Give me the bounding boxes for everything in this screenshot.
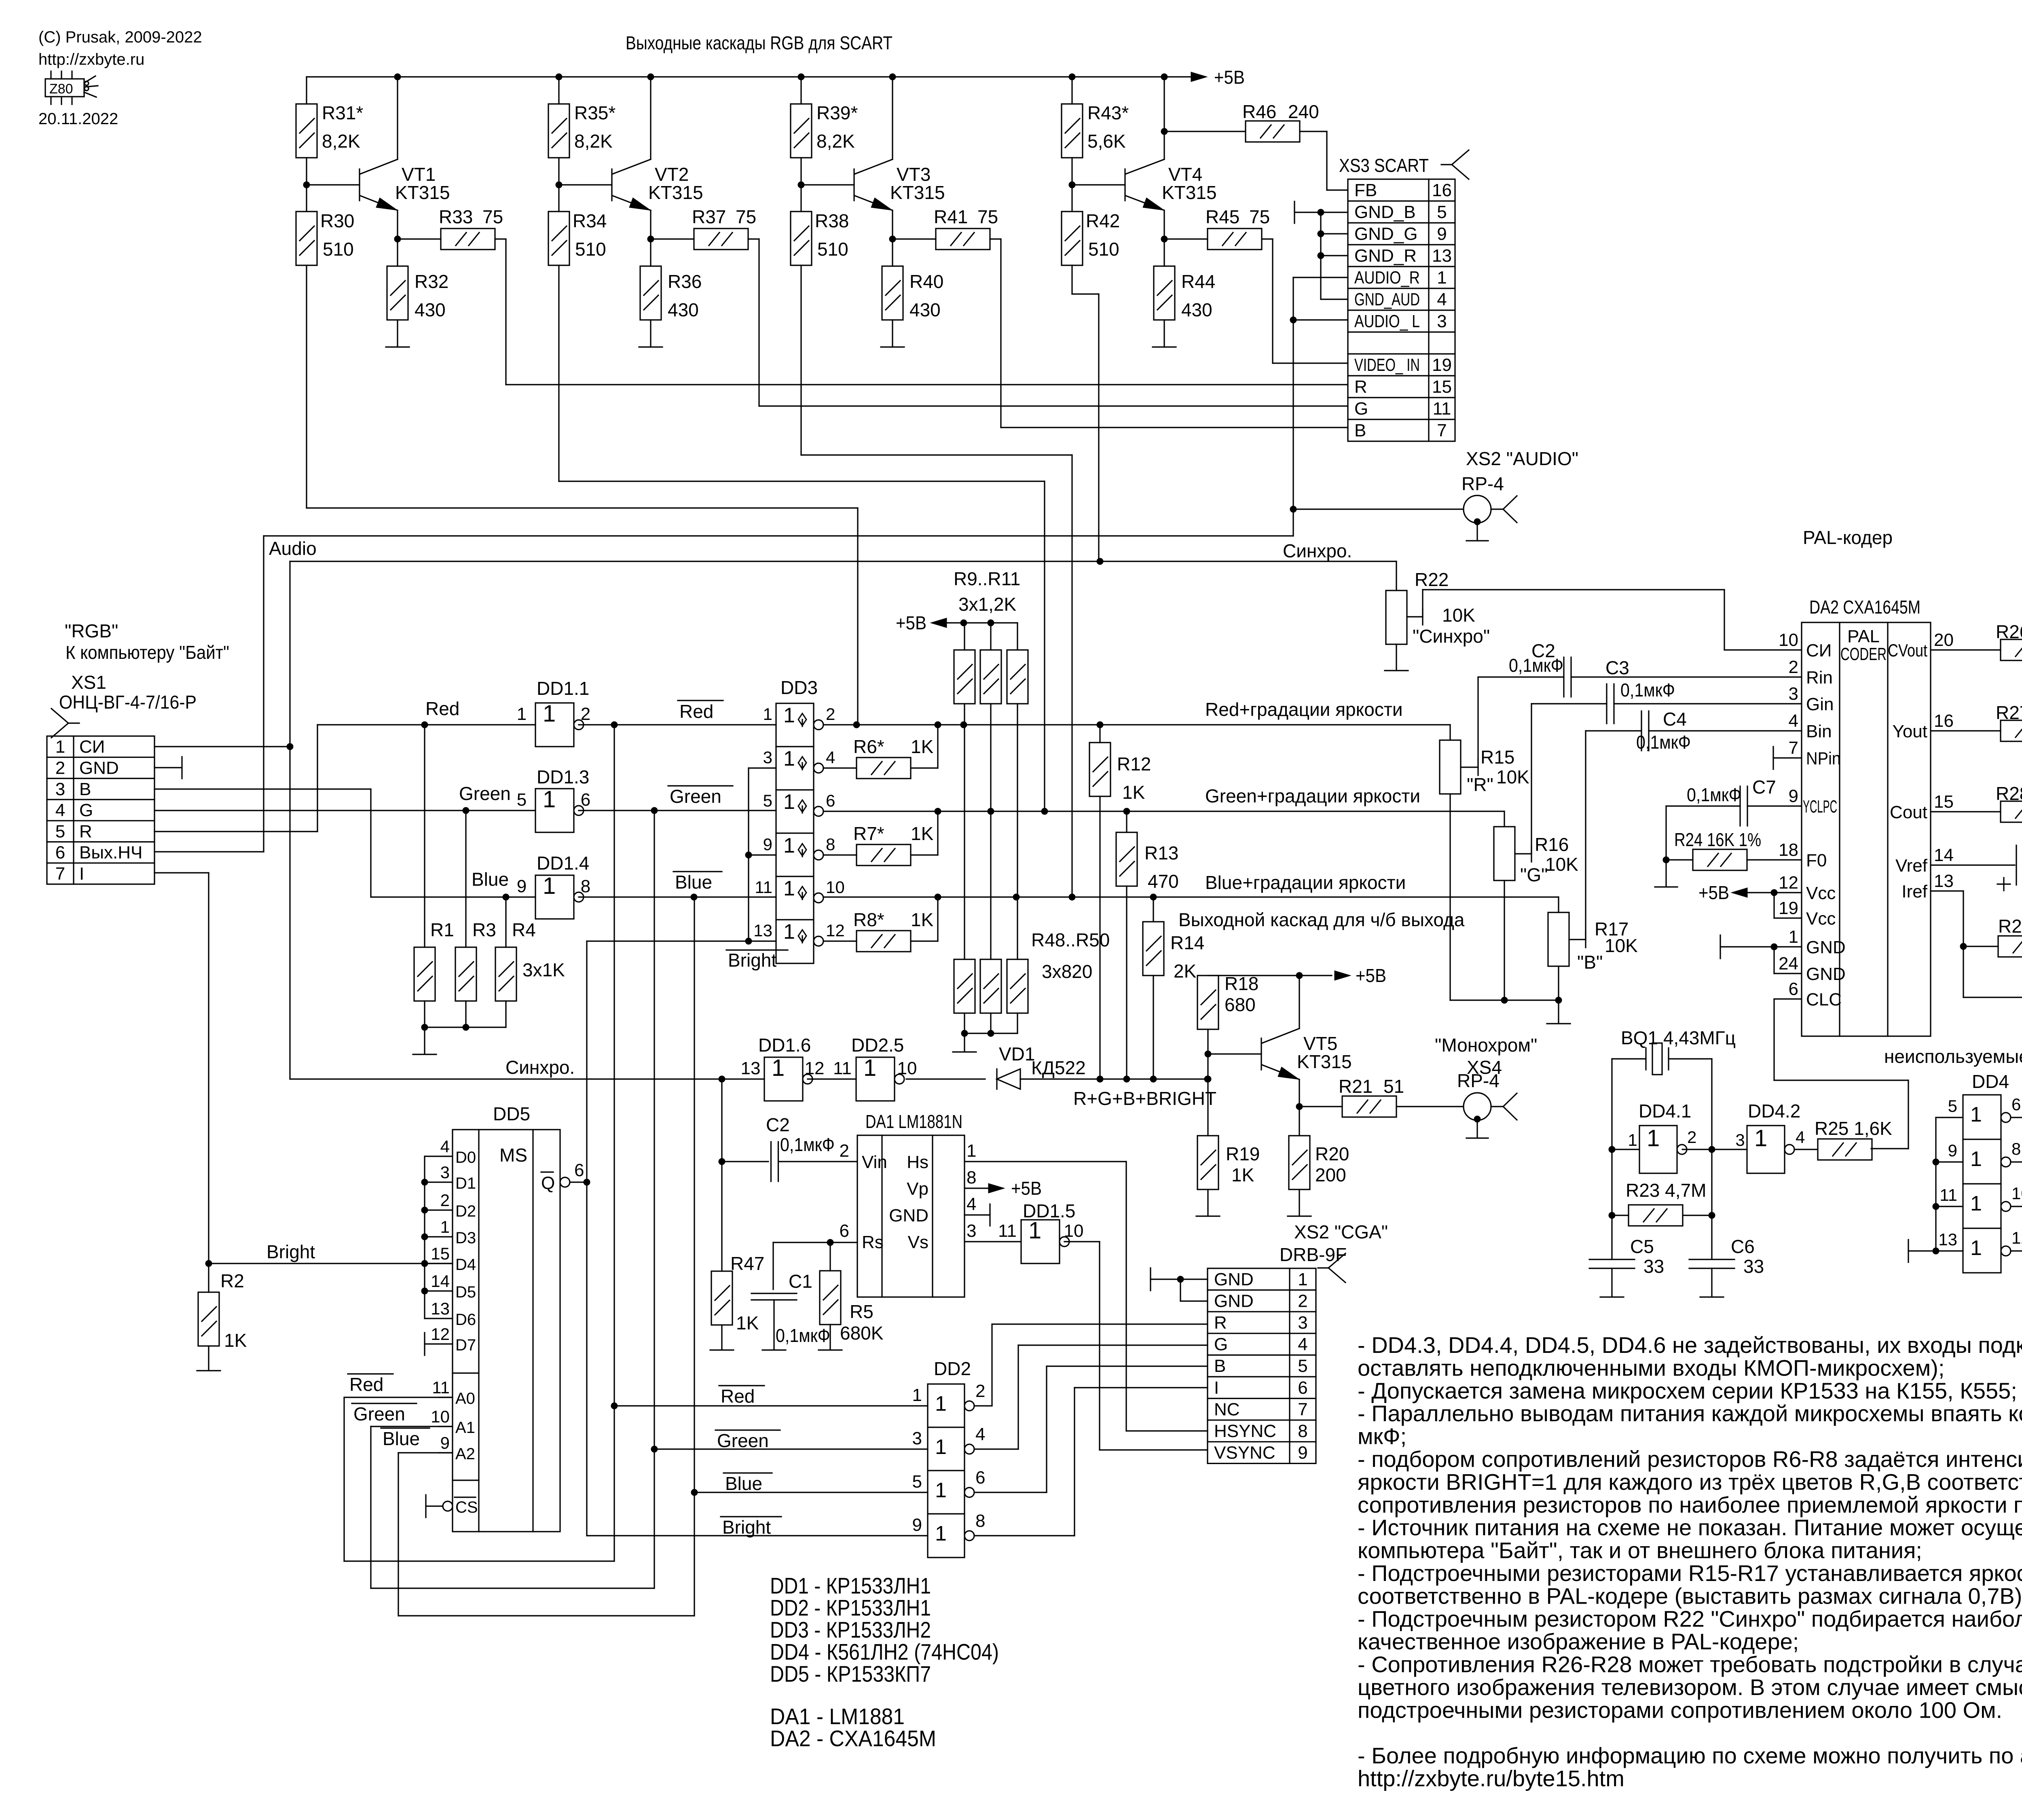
svg-text:7: 7 [55, 864, 65, 884]
svg-text:Blue+градации яркости: Blue+градации яркости [1205, 872, 1406, 893]
svg-text:R4: R4 [512, 919, 536, 940]
svg-text:GND: GND [79, 758, 119, 778]
svg-text:Green: Green [670, 786, 721, 807]
wire collector VT4 [1163, 77, 1165, 159]
svg-text:DA1 LM1881N: DA1 LM1881N [865, 1111, 962, 1132]
svg-text:6: 6 [1298, 1378, 1307, 1398]
svg-text:19: 19 [1779, 898, 1798, 918]
svg-text:200: 200 [1315, 1164, 1346, 1185]
wire +5V at VT5 [1299, 975, 1332, 976]
svg-text:R35*: R35* [574, 102, 615, 123]
svg-text:A1: A1 [455, 1419, 475, 1437]
resistor R31* [296, 104, 317, 158]
svg-text:R20: R20 [1315, 1143, 1349, 1164]
connector XS2 CGA table [1208, 1268, 1316, 1463]
svg-text:R22: R22 [1415, 569, 1449, 590]
svg-text:B: B [1214, 1356, 1226, 1376]
wire sync to DD1.6 [290, 1078, 764, 1079]
svg-text:оставлять неподключенными вход: оставлять неподключенными входы КМОП-мик… [1358, 1355, 1945, 1380]
svg-text:GND_G: GND_G [1354, 224, 1417, 244]
wire emitter resistor to ground R32 [397, 320, 398, 347]
svg-text:Green: Green [353, 1403, 405, 1424]
ground R5 [829, 1325, 831, 1349]
svg-text:9: 9 [1789, 786, 1798, 806]
svg-text:GND_AUD: GND_AUD [1354, 290, 1420, 309]
svg-text:9: 9 [912, 1515, 922, 1535]
svg-text:MS: MS [499, 1145, 527, 1166]
svg-text:G: G [79, 800, 93, 820]
svg-text:NC: NC [1214, 1399, 1240, 1419]
svg-text:10K: 10K [1545, 854, 1578, 875]
svg-text:2: 2 [55, 758, 65, 778]
resistor R49 [990, 811, 991, 959]
svg-text:1K: 1K [1122, 782, 1145, 803]
svg-text:XS3 SCART: XS3 SCART [1339, 155, 1429, 176]
wire nBlue to DD2.3 [691, 1489, 698, 1496]
svg-text:3x1K: 3x1K [522, 959, 565, 980]
svg-text:R29: R29 [1998, 916, 2022, 937]
svg-text:2: 2 [840, 1141, 849, 1161]
svg-text:1: 1 [935, 1522, 947, 1545]
svg-text:цветного изображения телевизор: цветного изображения телевизором. В этом… [1358, 1674, 2022, 1700]
svg-text:470: 470 [1148, 871, 1179, 892]
svg-text:"R": "R" [1467, 774, 1493, 795]
svg-text:C5: C5 [1630, 1236, 1654, 1257]
ground R1 R3 R4 [424, 1027, 425, 1054]
svg-text:R+G+B+BRIGHT: R+G+B+BRIGHT [1073, 1088, 1216, 1109]
svg-text:75: 75 [482, 206, 503, 227]
wire DD2.1 out to CGA R [974, 1405, 992, 1406]
wire audio to AUDIO_R [1293, 277, 1348, 278]
capacitor C8 [1931, 864, 2015, 866]
svg-text:0,1мкФ: 0,1мкФ [1509, 655, 1563, 676]
resistor R2 [208, 1263, 209, 1292]
svg-text:R47: R47 [730, 1253, 764, 1274]
svg-text:сопротивления резисторов по на: сопротивления резисторов по наиболее при… [1358, 1492, 2022, 1517]
svg-text:R19: R19 [1226, 1143, 1260, 1164]
svg-text:GND_R: GND_R [1354, 246, 1417, 266]
svg-text:R8*: R8* [853, 909, 884, 930]
svg-text:1: 1 [1437, 268, 1447, 288]
wire emitter VT1 [397, 210, 398, 266]
svg-text:4: 4 [1796, 1128, 1805, 1147]
wire Green line to R16 [1504, 811, 1505, 827]
junction on +5V rail [1069, 74, 1075, 80]
svg-text:NPin: NPin [1806, 749, 1841, 768]
svg-text:R34: R34 [573, 210, 607, 231]
wire GND pins DA2 [1774, 946, 1802, 947]
resistor R20 [1289, 1136, 1310, 1189]
svg-text:8,2K: 8,2K [816, 131, 855, 152]
svg-text:RP-4: RP-4 [1457, 1070, 1500, 1091]
svg-text:DD2.5: DD2.5 [851, 1035, 904, 1056]
wire +5V rail [307, 76, 1192, 77]
wire DD2.2 out to CGA G [974, 1448, 1018, 1450]
ground stub DD4 inputs [1908, 1250, 1936, 1251]
svg-text:18: 18 [1779, 840, 1798, 860]
svg-text:R24 16K 1%: R24 16K 1% [1674, 829, 1761, 850]
transistor VT4 KT315 [1124, 169, 1125, 201]
svg-text:20.11.2022: 20.11.2022 [38, 110, 118, 128]
svg-text:1K: 1K [736, 1312, 759, 1333]
resistor R5 [829, 1242, 831, 1271]
svg-text:510: 510 [1088, 239, 1119, 260]
wire Audio line [264, 535, 1293, 536]
svg-text:R26*: R26* [1996, 621, 2022, 642]
svg-text:6: 6 [826, 791, 835, 810]
wire R37 output to SCART G [748, 238, 759, 239]
svg-text:D3: D3 [455, 1229, 476, 1247]
svg-text:Gin: Gin [1806, 694, 1834, 714]
svg-text:9: 9 [1437, 224, 1447, 244]
svg-text:D7: D7 [455, 1336, 476, 1354]
svg-text:+5В: +5В [1698, 882, 1729, 903]
svg-text:GND: GND [889, 1206, 929, 1225]
wire DD2.4 out to CGA I [974, 1535, 1074, 1536]
resistor R47 [711, 1271, 732, 1325]
wire collector chain VT4 [1071, 77, 1072, 104]
resistor R12 [1099, 725, 1100, 743]
resistor R9 [964, 623, 965, 650]
svg-text:C3: C3 [1605, 657, 1629, 678]
svg-text:1: 1 [783, 704, 795, 727]
svg-text:DA2 - CXA1645M: DA2 - CXA1645M [770, 1726, 936, 1751]
svg-text:PAL-кодер: PAL-кодер [1803, 527, 1893, 548]
svg-text:соответственно в PAL-кодере (в: соответственно в PAL-кодере (выставить р… [1358, 1583, 2022, 1608]
svg-text:R6*: R6* [853, 736, 884, 757]
svg-text:"G": "G" [1520, 864, 1548, 885]
resistor R6* [823, 767, 857, 768]
svg-text:Hs: Hs [907, 1152, 929, 1172]
svg-text:A2: A2 [455, 1445, 475, 1463]
resistor R13 [1126, 811, 1127, 832]
resistor R18 [1197, 976, 1218, 1029]
svg-text:подстроечными резисторами сопр: подстроечными резисторами сопротивлением… [1358, 1697, 2002, 1723]
svg-text:10: 10 [1779, 630, 1798, 650]
svg-text:5: 5 [763, 791, 772, 810]
wire +5V line VT5 [1208, 975, 1299, 976]
wire base node VT4 [1071, 158, 1072, 212]
svg-text:12: 12 [1779, 873, 1798, 893]
svg-text:7: 7 [1298, 1399, 1307, 1419]
wire CLC to R25 [1774, 998, 1802, 999]
svg-text:G: G [1214, 1335, 1228, 1354]
junction on +5V rail [1161, 74, 1168, 80]
svg-text:430: 430 [668, 299, 699, 320]
svg-text:12: 12 [431, 1325, 450, 1344]
svg-text:75: 75 [977, 206, 998, 227]
wire C6 ground [1711, 1268, 1712, 1296]
svg-text:6: 6 [55, 843, 65, 863]
svg-text:DD1.6: DD1.6 [758, 1035, 811, 1056]
svg-text:D1: D1 [455, 1175, 476, 1192]
svg-text:XS2 "AUDIO": XS2 "AUDIO" [1466, 448, 1578, 469]
resistor R38 [791, 212, 812, 265]
svg-text:510: 510 [575, 239, 606, 260]
svg-text:11: 11 [1433, 399, 1451, 419]
wire base node VT3 [800, 158, 802, 212]
wire emitter VT3 [892, 210, 893, 266]
svg-text:- Источник питания на схеме не: - Источник питания на схеме не показан. … [1358, 1515, 2022, 1540]
svg-text:Red: Red [349, 1374, 383, 1395]
svg-text:Rs: Rs [862, 1232, 884, 1252]
svg-text:3: 3 [1789, 684, 1798, 704]
svg-text:R44: R44 [1181, 271, 1215, 292]
svg-text:5: 5 [1948, 1096, 1957, 1115]
svg-text:1: 1 [1970, 1236, 1982, 1260]
svg-text:1: 1 [935, 1435, 947, 1459]
svg-text:1: 1 [783, 877, 795, 900]
svg-text:- Параллельно выводам питания: - Параллельно выводам питания каждой мик… [1358, 1401, 2022, 1426]
svg-text:XS1: XS1 [71, 672, 106, 693]
wire R8 to Blue line [911, 940, 938, 942]
junction on +5V rail [889, 74, 896, 80]
resistor R39* [791, 104, 812, 158]
svg-text:1: 1 [1647, 1125, 1660, 1151]
svg-text:4: 4 [967, 1194, 976, 1214]
ground R40 [881, 346, 904, 347]
svg-text:Vcc: Vcc [1806, 909, 1836, 929]
svg-text:R31*: R31* [322, 102, 363, 123]
svg-text:A0: A0 [455, 1390, 475, 1407]
svg-text:"Синхро": "Синхро" [1413, 626, 1490, 647]
svg-text:Z80: Z80 [49, 81, 73, 97]
svg-text:R3: R3 [472, 919, 496, 940]
svg-text:Blue: Blue [383, 1428, 420, 1449]
junction on +5V rail [394, 74, 401, 80]
svg-text:R39*: R39* [816, 102, 858, 123]
resistor R21 [1299, 1106, 1342, 1107]
capacitor C6 [1689, 1259, 1734, 1260]
svg-text:мкФ;: мкФ; [1358, 1424, 1407, 1449]
svg-text:2: 2 [826, 705, 835, 724]
wire nRed to DD5 A0 [613, 1406, 615, 1561]
svg-text:2: 2 [1687, 1128, 1696, 1147]
svg-text:VIDEO_ IN: VIDEO_ IN [1354, 355, 1420, 375]
resistor R7* [823, 854, 857, 855]
svg-text:1K: 1K [224, 1330, 247, 1351]
pin NPin stub [1773, 757, 1802, 758]
svg-text:R15: R15 [1481, 747, 1514, 768]
svg-text:СИ: СИ [79, 737, 105, 757]
wire R20 ground [1299, 1189, 1300, 1215]
wire DD4.1 out [1682, 1149, 1712, 1150]
wire stage2 base feed to Green line [558, 265, 559, 481]
svg-text:1K: 1K [1231, 1164, 1254, 1185]
svg-text:C4: C4 [1663, 709, 1687, 730]
svg-text:YCLPC: YCLPC [1803, 797, 1837, 817]
svg-text:1: 1 [55, 737, 65, 757]
svg-text:5: 5 [55, 821, 65, 841]
resistor R19 [1197, 1136, 1218, 1189]
svg-text:R45: R45 [1206, 206, 1239, 227]
svg-text:6: 6 [840, 1221, 849, 1241]
wire stage1 base feed to Red line [306, 265, 307, 508]
svg-text:- Допускается замена микросхем: - Допускается замена микросхем серии КР1… [1358, 1378, 2017, 1403]
svg-text:Vp: Vp [907, 1179, 929, 1199]
svg-text:- Сопротивления R26-R28 может: - Сопротивления R26-R28 может требовать … [1358, 1652, 2022, 1677]
svg-text:D2: D2 [455, 1202, 476, 1220]
svg-text:1: 1 [543, 873, 556, 899]
svg-text:VSYNC: VSYNC [1214, 1443, 1275, 1463]
wire R41 output to SCART B [990, 238, 1001, 239]
svg-text:Cout: Cout [1890, 802, 1927, 822]
svg-text:- Подстроечными резисторами R1: - Подстроечными резисторами R15-R17 уста… [1358, 1560, 2022, 1586]
+5V arrowhead right [1191, 72, 1207, 82]
svg-text:F0: F0 [1806, 851, 1827, 870]
svg-text:13: 13 [431, 1299, 450, 1318]
svg-text:D5: D5 [455, 1283, 476, 1301]
svg-text:3: 3 [912, 1428, 922, 1448]
wire sync to R22 [1396, 561, 1397, 590]
wire Hs to HSYNC [964, 1161, 1126, 1162]
capacitor C9 [1963, 997, 2022, 998]
svg-text:C7: C7 [1752, 777, 1776, 798]
wire DD2.5 out to VD1 [906, 1078, 985, 1079]
wire R48..R50 common to ground [964, 1033, 1017, 1034]
svg-text:5: 5 [1437, 202, 1447, 222]
wire nBlue to DD5 A2 [694, 1492, 695, 1616]
svg-text:R33: R33 [439, 206, 473, 227]
svg-text:DD3: DD3 [780, 677, 818, 698]
wire XS1 GND stub [154, 767, 182, 768]
svg-text:I: I [79, 864, 84, 884]
wire audio to AUDIO_L [1293, 319, 1348, 320]
resistor R29 [1963, 946, 1998, 947]
svg-text:KT315: KT315 [890, 182, 945, 203]
resistor R32 [387, 266, 408, 320]
wire Red line [317, 724, 535, 725]
svg-text:12: 12 [826, 921, 845, 940]
svg-text:Rin: Rin [1806, 668, 1833, 688]
svg-text:5,6K: 5,6K [1087, 131, 1126, 152]
wire VT5 collector [1299, 976, 1300, 1029]
svg-text:Синхро.: Синхро. [505, 1057, 575, 1078]
svg-text:- подбором сопротивлений резис: - подбором сопротивлений резисторов R6-R… [1358, 1446, 2022, 1472]
svg-text:24: 24 [1779, 954, 1798, 973]
wire DD1.3 out / nGreen [579, 810, 776, 811]
svg-text:R7*: R7* [853, 823, 884, 844]
svg-text:12: 12 [805, 1058, 825, 1078]
ground XS2 CGA [1150, 1268, 1151, 1291]
wire base node VT2 [558, 158, 559, 212]
svg-text:3x1,2K: 3x1,2K [958, 594, 1017, 615]
svg-text:1: 1 [543, 700, 556, 727]
resistor R43* [1062, 104, 1083, 158]
svg-text:10: 10 [1064, 1221, 1084, 1241]
svg-text:PAL: PAL [1847, 626, 1880, 646]
resistor R8* [823, 940, 857, 942]
svg-text:GND: GND [1214, 1291, 1254, 1311]
wire nGreen to DD5 A1 [654, 1449, 655, 1588]
svg-text:Выходные каскады RGB для SCART: Выходные каскады RGB для SCART [626, 32, 893, 53]
transistor VT1 KT315 [359, 169, 360, 201]
svg-text:15: 15 [431, 1244, 450, 1263]
wire Bright from XS1 I [205, 1260, 212, 1267]
wire DD1.1 out / nRed [579, 724, 776, 725]
svg-text:КД522: КД522 [1031, 1057, 1086, 1078]
resistor R27* [1931, 730, 2001, 731]
svg-text:1: 1 [863, 1055, 876, 1081]
wire R45 output to SCART VIDEO_IN [1262, 238, 1273, 239]
svg-text:CODER: CODER [1840, 644, 1887, 664]
gate DD3 (6x open-collector) [776, 703, 814, 963]
capacitor C4 [1586, 730, 1641, 731]
svg-text:14: 14 [1934, 845, 1954, 865]
svg-text:R28*: R28* [1996, 783, 2022, 804]
resistor R1 [421, 722, 428, 728]
svg-text:1: 1 [935, 1392, 947, 1416]
wire sync line to R22 [290, 561, 1396, 562]
svg-text:6: 6 [574, 1160, 584, 1180]
svg-text:KT315: KT315 [1297, 1051, 1352, 1072]
wire emitter resistor to ground R36 [650, 320, 651, 347]
svg-text:680: 680 [1225, 994, 1256, 1015]
svg-text:2: 2 [1298, 1291, 1307, 1311]
svg-text:R14: R14 [1170, 932, 1204, 953]
svg-text:4: 4 [55, 800, 65, 820]
svg-text:13: 13 [741, 1058, 761, 1078]
svg-text:8: 8 [581, 876, 590, 896]
svg-text:D6: D6 [455, 1311, 476, 1329]
wire nGreen to DD2.2 [651, 1446, 658, 1452]
ground R44 [1153, 346, 1176, 347]
ground R20 [1288, 1215, 1311, 1217]
wire R19 ground [1207, 1189, 1208, 1215]
svg-text:3: 3 [1298, 1313, 1307, 1333]
svg-text:1: 1 [967, 1141, 976, 1161]
svg-text:Red: Red [679, 701, 713, 722]
svg-text:1: 1 [440, 1217, 450, 1236]
trimmer R15 [1440, 740, 1461, 794]
svg-text:75: 75 [1249, 206, 1270, 227]
svg-text:+5В: +5В [1011, 1178, 1042, 1199]
resistor R10 [990, 623, 991, 650]
svg-text:R9..R11: R9..R11 [954, 568, 1020, 589]
gate DD2.1 [928, 1384, 964, 1558]
wire emitter VT4 [1163, 210, 1165, 266]
ground R15..R17 [1558, 1000, 1559, 1023]
resistor R28* [1931, 811, 2001, 812]
svg-text:качественное изображение в PAL: качественное изображение в PAL-кодере; [1358, 1629, 1799, 1654]
resistor R11 [1017, 623, 1018, 650]
svg-text:3x820: 3x820 [1042, 961, 1092, 982]
resistor R35* [548, 104, 569, 158]
svg-text:8,2K: 8,2K [574, 131, 613, 152]
svg-text:7: 7 [1789, 738, 1798, 758]
svg-text:R42: R42 [1086, 210, 1120, 231]
resistor R36 [640, 266, 661, 320]
svg-text:11: 11 [833, 1058, 852, 1078]
wire DD3.5 out to Blue line [823, 896, 1559, 897]
svg-text:11: 11 [1940, 1185, 1957, 1204]
svg-text:6: 6 [2011, 1095, 2021, 1114]
svg-text:4: 4 [1437, 290, 1447, 309]
wire DD4 input bus [1935, 1117, 1936, 1251]
svg-text:8: 8 [975, 1511, 985, 1531]
svg-text:1: 1 [935, 1479, 947, 1502]
svg-text:33: 33 [1643, 1256, 1664, 1277]
svg-text:3: 3 [440, 1163, 450, 1182]
svg-text:1: 1 [1789, 927, 1798, 947]
wire R1 R3 R4 common [424, 1001, 425, 1027]
svg-text:R: R [79, 821, 92, 841]
svg-text:Vin: Vin [862, 1152, 887, 1172]
svg-text:KT315: KT315 [395, 182, 450, 203]
svg-text:Vcc: Vcc [1806, 883, 1836, 903]
wire XS1 G to Green line [154, 810, 535, 811]
resistor R41 [893, 238, 936, 239]
